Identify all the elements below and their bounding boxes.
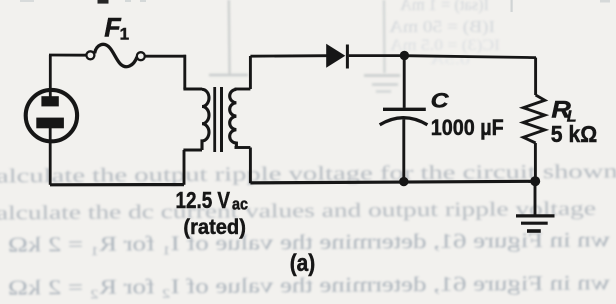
transformer secondary bottom bar <box>235 146 251 149</box>
AC plug bottom prong <box>36 118 64 129</box>
wire: plug top lead <box>49 55 52 97</box>
ground stub <box>534 181 537 215</box>
faint dash under transformer top <box>209 74 248 77</box>
wire: secondary bottom lead <box>249 148 252 184</box>
wire: top rail to fuse <box>49 54 87 57</box>
faint mirrored line E <box>8 270 610 299</box>
wire: diode to cap node <box>349 54 405 57</box>
svg-text:1: 1 <box>120 25 129 44</box>
wire: secondary top lead <box>249 56 252 89</box>
wire: RL bottom lead <box>534 143 537 181</box>
diode D1 cathode bar <box>346 45 349 69</box>
node: RL bottom junction dot <box>530 176 540 186</box>
top edge faint marks <box>20 0 34 2</box>
svg-text:C: C <box>431 88 449 112</box>
capacitor C bottom plate (curved) <box>380 118 428 125</box>
transformer secondary top bar <box>235 88 251 91</box>
transformer primary top bar <box>183 88 202 91</box>
top edge stray mark <box>98 0 109 4</box>
transformer T1 secondary winding <box>230 89 237 147</box>
svg-text:5 kΩ: 5 kΩ <box>551 121 597 147</box>
node: diode/cap junction dot <box>400 51 409 60</box>
transformer core lines <box>213 87 216 152</box>
svg-text:ac: ac <box>232 195 248 214</box>
wire: RL top lead <box>534 58 537 95</box>
svg-text:I(sat) = 1 mA: I(sat) = 1 mA <box>399 0 489 14</box>
AC plug source: circle <box>26 90 77 141</box>
wire: fuse to transformer <box>145 55 186 58</box>
fuse F1 right terminal <box>137 52 145 60</box>
faint dashes near cap top area <box>364 74 400 77</box>
bottom rail right (secondary to RL) <box>250 181 535 183</box>
ground bar 3 <box>527 229 541 233</box>
wire: plug bottom lead <box>49 128 52 185</box>
svg-text:12.5 V: 12.5 V <box>176 187 231 213</box>
fuse F1 left terminal <box>86 51 94 59</box>
svg-text:1000 µF: 1000 µF <box>431 115 504 140</box>
wire: secondary top to diode <box>250 54 327 57</box>
transformer T1 primary winding <box>202 89 209 150</box>
bottom rail left (plug to primary) <box>50 183 184 186</box>
svg-text:(rated): (rated) <box>183 215 246 239</box>
faint vertical rule left of transformer <box>228 0 231 75</box>
node: capacitor bottom junction dot <box>399 177 408 186</box>
ground bar 1 <box>516 214 555 217</box>
ground bar 2 <box>521 222 548 225</box>
faint mirrored top-right block <box>388 0 500 68</box>
faint line B: calculate dc values <box>0 198 596 225</box>
wire: transformer primary top lead <box>183 55 186 89</box>
wire: transformer primary bottom lead <box>183 150 186 185</box>
faint line A: calculate output ripple voltage <box>0 160 616 187</box>
faint mirrored line D <box>8 227 610 256</box>
svg-text:I(B) = 50 mA: I(B) = 50 mA <box>388 17 495 36</box>
resistor RL zigzag <box>523 95 545 143</box>
faint vertical rule near diode <box>383 0 386 73</box>
diode D1 triangle <box>326 44 345 68</box>
transformer primary bottom bar <box>183 149 202 152</box>
wire: cap node to RL corner <box>404 56 536 58</box>
wire: capacitor top lead <box>403 56 406 108</box>
AC plug top prong <box>41 96 58 106</box>
capacitor C top plate <box>383 108 426 111</box>
wire: capacitor bottom lead <box>402 120 405 183</box>
svg-text:(a): (a) <box>290 250 316 277</box>
fuse F1 element (S-curve) <box>95 44 137 66</box>
